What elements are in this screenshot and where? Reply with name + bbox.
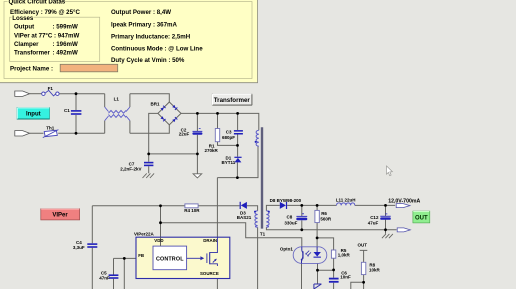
svg-text:R6: R6 bbox=[321, 211, 327, 216]
wire L1 to bridge bottom corner bbox=[130, 125, 169, 134]
svg-text:Clamper: Clamper bbox=[14, 41, 39, 48]
connector output minus bbox=[397, 228, 410, 232]
svg-text:VIPer at 77°C : 947mW: VIPer at 77°C : 947mW bbox=[14, 32, 79, 39]
node C7 top bbox=[147, 153, 150, 156]
svg-text:Losses: Losses bbox=[12, 15, 34, 22]
wire aux winding return bbox=[257, 227, 259, 289]
transformer secondary winding bbox=[266, 211, 269, 228]
svg-text:Opto1: Opto1 bbox=[280, 247, 293, 252]
svg-text:R4 10R: R4 10R bbox=[184, 208, 200, 213]
svg-text:Duty Cycle at Vmin : 50%: Duty Cycle at Vmin : 50% bbox=[111, 57, 185, 64]
resistor R1 bbox=[215, 129, 219, 142]
vdd pin inside bbox=[160, 237, 162, 246]
node clamp RC bbox=[236, 144, 239, 147]
groupbox Quick Circuit Datas bbox=[4, 2, 252, 79]
node C8 top bbox=[300, 204, 303, 207]
VIPer22A IC block bbox=[136, 237, 230, 278]
node R6 top bbox=[316, 204, 319, 207]
phase dot aux bbox=[254, 211, 256, 213]
diode D1 bbox=[234, 157, 241, 163]
wire VDD pin drop bbox=[160, 206, 162, 237]
svg-text:47uF: 47uF bbox=[368, 220, 379, 225]
capacitor C3 bbox=[234, 130, 243, 134]
node C1 bottom bbox=[75, 132, 78, 135]
svg-text:BR1: BR1 bbox=[151, 102, 160, 107]
wire clamp horizontal to primary bottom bbox=[217, 146, 258, 177]
svg-text:C1: C1 bbox=[64, 108, 70, 113]
wire AC line2 bottom bbox=[30, 132, 105, 134]
svg-text:CONTROL: CONTROL bbox=[156, 256, 184, 262]
svg-text:BAS21: BAS21 bbox=[237, 215, 252, 220]
wire R6 vertical bbox=[316, 205, 318, 246]
chassis ground output bbox=[382, 234, 393, 238]
wire AC line1 top bbox=[30, 93, 42, 95]
svg-text:2,2nF-2kV: 2,2nF-2kV bbox=[120, 167, 141, 172]
gate drive arrow bbox=[187, 257, 201, 259]
control box bbox=[153, 246, 187, 270]
node C8 bottom bbox=[300, 228, 303, 231]
wire R5 branch bbox=[317, 238, 334, 289]
capacitor C6 bbox=[329, 278, 339, 283]
wire R1 vertical and to clamp node bbox=[218, 113, 238, 145]
capacitor C8 electrolytic bbox=[296, 213, 307, 220]
wire source pin down bbox=[216, 266, 218, 289]
node R1 top bbox=[216, 112, 219, 115]
svg-text:D8 BYW98-200: D8 BYW98-200 bbox=[270, 198, 302, 203]
diode D3 bbox=[240, 202, 247, 209]
svg-text:OUT: OUT bbox=[358, 242, 368, 247]
wire C12 vertical bbox=[385, 205, 387, 233]
svg-text:3,3uF: 3,3uF bbox=[73, 245, 85, 250]
OUT button bbox=[413, 211, 430, 223]
node VDD opto bbox=[159, 221, 162, 224]
node C12 top bbox=[384, 204, 387, 207]
svg-text:Continuous Mode : @ Low Line: Continuous Mode : @ Low Line bbox=[111, 46, 203, 53]
phase dot primary bbox=[255, 141, 257, 143]
wire R8 bottom bbox=[351, 275, 364, 289]
svg-text:Input: Input bbox=[26, 112, 41, 118]
wire drain vertical bbox=[216, 178, 218, 238]
wire fuse to C1 node to L1 bbox=[59, 93, 105, 95]
node C1 top bbox=[75, 92, 78, 95]
inductor L11 bbox=[337, 203, 355, 206]
wire C1 branch vertical bbox=[75, 94, 77, 134]
svg-text:Project Name :: Project Name : bbox=[10, 66, 53, 73]
svg-text:VDD: VDD bbox=[154, 238, 163, 243]
Transformer button bbox=[212, 94, 252, 106]
svg-text:270kR: 270kR bbox=[205, 148, 219, 153]
wire C2 vertical bbox=[196, 113, 198, 173]
opto LED bbox=[314, 247, 321, 258]
wire DC rail from bridge right to transformer bbox=[181, 113, 259, 130]
wire VDD to opto collector route bbox=[161, 223, 302, 247]
optocoupler Opto1 bbox=[293, 247, 327, 264]
power ground symbol bbox=[193, 174, 202, 178]
wire OUT net to R8 bbox=[360, 250, 368, 262]
wire LED cathode to TL431 bbox=[317, 263, 319, 283]
wire D1 to drain node bbox=[236, 162, 238, 177]
capacitor C12 electrolytic bbox=[380, 214, 391, 220]
resistor R5 bbox=[331, 250, 335, 258]
chassis ground C7 bbox=[143, 173, 155, 178]
mouse cursor bbox=[387, 166, 393, 176]
wire L1 top-right to bridge top bbox=[130, 94, 169, 102]
node C12 bottom bbox=[384, 228, 387, 231]
svg-text:VIPer22A: VIPer22A bbox=[134, 231, 155, 236]
light arrows bbox=[306, 251, 311, 256]
svg-text:L1: L1 bbox=[114, 97, 120, 102]
yellow info panel bbox=[0, 0, 258, 83]
transformer core bbox=[261, 127, 262, 228]
mosfet bbox=[207, 237, 218, 266]
svg-text:Primary Inductance: 2,5mH: Primary Inductance: 2,5mH bbox=[111, 34, 191, 41]
wire opto emitter down bbox=[301, 263, 303, 289]
svg-text:560R: 560R bbox=[320, 217, 332, 222]
capacitor C5 bbox=[109, 274, 119, 278]
svg-text:BYT11: BYT11 bbox=[222, 160, 236, 165]
svg-text:Quick Circuit Datas: Quick Circuit Datas bbox=[9, 0, 66, 5]
svg-text:SOURCE: SOURCE bbox=[200, 271, 219, 276]
wire gnd horizontal C7-C2 bbox=[149, 153, 198, 155]
groupbox Losses bbox=[10, 17, 100, 61]
svg-text:: 492mW: : 492mW bbox=[53, 50, 78, 57]
svg-text:L11 22uH: L11 22uH bbox=[336, 198, 356, 203]
wire VDD rail bbox=[92, 205, 239, 207]
svg-text:: 196mW: : 196mW bbox=[53, 41, 78, 48]
svg-text:Ipeak Primary : 367mA: Ipeak Primary : 367mA bbox=[111, 21, 177, 28]
node R5 bottom bbox=[332, 269, 335, 272]
diode D8 bbox=[280, 202, 287, 209]
capacitor C1 bbox=[71, 110, 82, 115]
svg-text:1,0kR: 1,0kR bbox=[338, 253, 351, 258]
svg-text:F1: F1 bbox=[48, 86, 54, 91]
transformer T1 primary winding bbox=[256, 130, 259, 146]
connector input neutral bbox=[15, 131, 30, 136]
Input button bbox=[17, 108, 50, 120]
wire C4 vertical bbox=[91, 206, 93, 289]
connector output plus bbox=[396, 204, 410, 208]
node C2 bottom bbox=[196, 153, 199, 156]
capacitor C7 bbox=[144, 162, 153, 166]
wire D3 anode to aux top bbox=[247, 206, 258, 211]
svg-text:12,0V-700mA: 12,0V-700mA bbox=[388, 198, 420, 204]
common mode choke L1 bbox=[105, 94, 130, 134]
node R5 top branch bbox=[316, 237, 319, 240]
node VDD pin bbox=[159, 204, 162, 207]
phase dot secondary bbox=[268, 211, 270, 213]
wire sec top to D8 bbox=[266, 205, 279, 210]
resistor R6 bbox=[315, 210, 319, 222]
wire FB drop to opto emitter side bbox=[123, 258, 125, 289]
svg-text:680pF: 680pF bbox=[222, 135, 235, 140]
svg-text:10kR: 10kR bbox=[369, 268, 381, 273]
svg-text:FB: FB bbox=[138, 253, 144, 258]
wire R5/LED bottom link bbox=[318, 269, 334, 271]
resistor R4 bbox=[185, 204, 198, 208]
svg-text:22uF: 22uF bbox=[179, 132, 190, 137]
node FB junction bbox=[123, 257, 126, 260]
thermistor Th1 bbox=[43, 130, 59, 138]
connector input line bbox=[15, 91, 30, 96]
node C3 top bbox=[236, 112, 239, 115]
resistor R8 bbox=[361, 262, 365, 274]
svg-text:330uF: 330uF bbox=[284, 220, 297, 225]
wire bridge left corner down to C7 bbox=[149, 113, 158, 173]
svg-text:Output: Output bbox=[14, 24, 34, 31]
node LED cathode bbox=[316, 269, 319, 272]
TL431 partial bbox=[314, 284, 322, 289]
wire C8 vertical bbox=[301, 205, 303, 229]
svg-text:OUT: OUT bbox=[415, 215, 428, 221]
project name input bbox=[60, 64, 117, 72]
svg-text:C8: C8 bbox=[287, 214, 293, 219]
bridge rectifier BR1 bbox=[158, 102, 181, 125]
wire sec bottom gnd rail bbox=[266, 227, 396, 230]
svg-text:Th1: Th1 bbox=[46, 126, 54, 131]
svg-text:Transformer: Transformer bbox=[14, 50, 50, 57]
svg-text:: 599mW: : 599mW bbox=[53, 24, 78, 31]
svg-text:47nF: 47nF bbox=[99, 275, 110, 280]
wire C3 vertical bbox=[237, 113, 239, 156]
svg-text:DRAIN: DRAIN bbox=[203, 238, 217, 243]
svg-text:C3: C3 bbox=[226, 129, 232, 134]
node R8 bottom bbox=[362, 281, 365, 284]
wire +12V rail bbox=[287, 204, 395, 206]
VIPer button bbox=[41, 209, 80, 220]
svg-text:Output Power : 8,4W: Output Power : 8,4W bbox=[111, 9, 171, 16]
capacitor C4 bbox=[87, 243, 97, 248]
svg-text:VIPer: VIPer bbox=[52, 212, 68, 218]
wire C5 vertical bbox=[113, 258, 115, 289]
fuse F1 bbox=[42, 90, 59, 96]
node clamp drain bbox=[236, 176, 239, 179]
svg-text:10nF: 10nF bbox=[340, 274, 351, 279]
svg-text:T1: T1 bbox=[260, 232, 266, 237]
node C2 top bbox=[196, 112, 199, 115]
wire FB line bbox=[114, 257, 137, 259]
transformer aux winding bbox=[255, 211, 258, 228]
opto transistor bbox=[301, 247, 303, 264]
capacitor C2 electrolytic bbox=[192, 128, 202, 135]
svg-text:Transformer: Transformer bbox=[214, 97, 251, 104]
